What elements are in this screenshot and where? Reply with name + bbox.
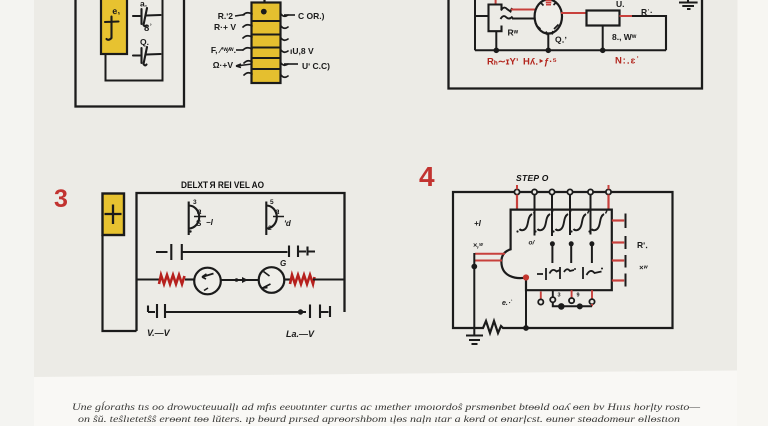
red stub IC right 3 [612, 255, 626, 268]
svg-text:ıU,8 V: ıU,8 V [290, 46, 314, 56]
svg-text:Hʎ․‣ƒ·⁵: Hʎ․‣ƒ·⁵ [523, 57, 557, 68]
svg-text:DELXT Я REI VEL AO: DELXT Я REI VEL AO [181, 180, 264, 190]
label F,/ILHV with leader [211, 45, 243, 55]
junction node left [471, 264, 477, 270]
IC waveform glyph 5 [588, 211, 607, 233]
svg-text:3: 3 [54, 185, 68, 213]
battery B3 (yellow cell with plus) [103, 194, 125, 236]
svg-text:a: a [197, 207, 202, 216]
red stub to contact K3 [571, 290, 573, 298]
label Q. (C2 value) [140, 37, 149, 47]
contact K1 [538, 299, 543, 304]
resistor stack RN1 (yellow segmented) [252, 3, 281, 84]
feedback junction wire [473, 253, 475, 267]
red node dot on IC [523, 274, 529, 280]
bus node B [577, 303, 583, 309]
label IU,8 V [290, 46, 314, 56]
panel 4 outer loop with resistor in bottom wire [453, 192, 673, 333]
svg-text:C OR.): C OR.) [298, 11, 325, 21]
svg-text:9: 9 [577, 293, 580, 299]
left drop wire to ground rail [473, 267, 475, 329]
svg-text:a.: a. [140, 0, 147, 9]
label C OR) with tick [284, 11, 325, 21]
red drop wire T6 to IC [607, 195, 609, 210]
capacitor C1 [133, 8, 161, 26]
bottom bus wire [475, 49, 666, 51]
top terminal T1 [514, 189, 519, 194]
red wire R2 to load loop [620, 15, 633, 17]
IC waveform glyph 3 [552, 211, 571, 233]
bus node A [558, 303, 565, 310]
red stub to contact K4 [591, 290, 593, 299]
panel 3 title DELXT R REI VEL AO [181, 180, 264, 190]
svg-text:V.—V: V.—V [147, 328, 171, 338]
diode D2 with fraction label [266, 199, 292, 235]
svg-text:+l: +l [474, 219, 482, 228]
label R,. [637, 240, 648, 250]
wire L2 to frame [313, 278, 345, 280]
caption text line 2 [78, 414, 681, 425]
svg-text:5: 5 [270, 199, 274, 206]
red stub IC right 2 [612, 236, 626, 249]
svg-text:La.—V: La.—V [286, 329, 315, 339]
svg-text:S: S [196, 219, 202, 228]
red wire rect to transistor (upper) [511, 9, 536, 11]
drop wire from R" [495, 31, 497, 50]
capacitor C2 [133, 47, 161, 65]
label R" [508, 28, 519, 38]
panel number 3 [54, 185, 68, 213]
label Omega+V with arrow [213, 60, 252, 70]
svg-text:8ʾ: 8ʾ [144, 23, 152, 34]
svg-text:N:․ɛʾ: N:․ɛʾ [615, 56, 640, 67]
label x" [639, 263, 648, 272]
drop wire T4 to IC [569, 195, 571, 210]
wire rect to transistor (lower) [512, 18, 536, 20]
red feedback wire upper [475, 253, 505, 255]
svg-text:3: 3 [558, 293, 561, 299]
svg-text:Rʷ: Rʷ [508, 28, 519, 38]
input resistor R" (box) [489, 5, 513, 32]
red drop wire T1 to IC [516, 195, 518, 210]
svg-text:STEP O: STEP O [516, 173, 549, 183]
wire red node to bottom rail [525, 278, 527, 329]
resistor R2 (box) [587, 11, 620, 26]
panel number 4 [419, 161, 435, 192]
label R.'2 with leader [218, 11, 245, 21]
stub to input resistor [475, 15, 489, 17]
svg-text:Uʹ C.C): Uʹ C.C) [302, 61, 330, 71]
red label N:-E [615, 56, 640, 67]
junction node [494, 48, 500, 54]
label U. [616, 0, 625, 9]
meter M2 (circle with needle) [259, 267, 285, 293]
ground symbol (top right) [679, 0, 698, 9]
panel 1 inner box [106, 0, 163, 81]
inductor L1 (red) [159, 275, 185, 284]
label 8 (node) [144, 23, 152, 34]
diode D1 with fraction label [189, 199, 214, 235]
svg-text:Ω·+V: Ω·+V [213, 60, 234, 70]
svg-text:U.: U. [616, 0, 625, 9]
label e.' [502, 299, 512, 307]
right white margin [737, 0, 768, 426]
left white margin [0, 0, 34, 426]
wire into inductor L1 [137, 278, 160, 280]
drop wire T5 to IC [590, 195, 592, 210]
IC waveform glyph 4 [570, 211, 589, 233]
IC pin P1 [550, 241, 555, 263]
svg-text:R.ʹ2: R.ʹ2 [218, 11, 234, 21]
svg-text:G: G [280, 259, 286, 268]
junction node bottom [298, 309, 303, 314]
label o/ [529, 240, 536, 247]
stub to contact K2 [552, 290, 554, 297]
red stub to contact K1 [540, 292, 542, 300]
label R. [641, 7, 653, 17]
drop wire T2 to IC [534, 195, 536, 210]
transistor Q. (circle) [535, 0, 562, 35]
svg-text:Rʹ․: Rʹ․ [637, 240, 648, 250]
drop wire T3 to IC [551, 195, 553, 210]
label a. (C1 value) [140, 0, 147, 9]
svg-text:on ŝŭ. teŝlıetetŝŝ erөөnt tөө: on ŝŭ. teŝlıetetŝŝ erөөnt tөө lŭters. ıp… [78, 414, 681, 425]
svg-text:4: 4 [419, 161, 435, 192]
wire between meters with flow arrow [221, 277, 259, 283]
contact K2 [550, 297, 555, 302]
svg-text:e.⋅ʾ: e.⋅ʾ [502, 299, 512, 307]
wire to stack top [263, 0, 265, 10]
label La.-V [286, 329, 315, 339]
meter M1 (circle with needle) [194, 268, 221, 295]
wire M2 to inductor L2 [284, 278, 290, 280]
IC U4 body with left notch [501, 210, 611, 291]
battery return wire (left column) [103, 235, 137, 331]
stack left pin squiggles [243, 13, 252, 75]
IC pin P2 [569, 241, 574, 263]
red feedback wire lower [475, 260, 502, 262]
junction node on stack [261, 9, 267, 15]
label 8.,W [612, 32, 637, 42]
svg-text:Une gĺoraths tıs oo drowυcteuu: Une gĺoraths tıs oo drowυcteuualļı ad mf… [72, 402, 701, 413]
wire L1 to meter M1 [185, 278, 195, 280]
caption text line 1 [72, 402, 701, 413]
IC pin P3 [589, 241, 594, 263]
capacitor C3a (row) [156, 244, 315, 260]
IC lower contact glyphs [537, 267, 603, 280]
svg-text:R·+ V: R·+ V [214, 22, 236, 32]
capacitor C3c (bottom right) [310, 305, 330, 319]
label V.-V [147, 328, 171, 338]
svg-text:2: 2 [268, 225, 272, 232]
svg-text:ʹd: ʹd [284, 219, 292, 228]
svg-text:×ʷ: ×ʷ [639, 263, 648, 272]
svg-text:Rₕ∼ɪYʼ: Rₕ∼ɪYʼ [487, 57, 519, 68]
stack right pin squiggles [281, 14, 288, 77]
IC waveform glyph 2 [534, 211, 553, 233]
red stub above T6 [608, 185, 610, 189]
svg-text:a: a [275, 207, 280, 216]
svg-text:×,ʷ: ×,ʷ [473, 243, 484, 250]
contact K3 [569, 298, 574, 303]
svg-text:8., Wʷ: 8., Wʷ [612, 32, 637, 42]
top terminal T5 [588, 189, 593, 194]
top terminal T6 [606, 189, 611, 194]
svg-text:−l: −l [206, 218, 214, 227]
red stub above T1 [516, 185, 518, 189]
label G [280, 259, 286, 268]
left supply wire [474, 0, 476, 50]
junction node bottom rail [523, 325, 529, 331]
top terminal T3 [549, 189, 554, 194]
label Q. [555, 35, 567, 45]
svg-text:Q․ʼ: Q․ʼ [555, 35, 567, 45]
red drop at K4 [591, 304, 593, 306]
panel 4 title STEP O [516, 173, 549, 183]
red wire transistor to R2 [561, 12, 587, 14]
ground symbol (panel 4) [466, 328, 483, 344]
panel 1 outer enclosure box [76, 0, 185, 107]
panel 2 outer enclosure [449, 0, 703, 89]
internal extensions of terminal wires [535, 210, 591, 236]
top terminal T4 [567, 189, 572, 194]
tiny label 9 [577, 293, 580, 299]
IC waveform glyph 1 [516, 211, 535, 233]
svg-text:Q.: Q. [140, 37, 149, 47]
inductor L2 (red) [290, 275, 315, 284]
drop wire from R2 [602, 26, 604, 51]
capacitor C3b (bottom left) [148, 304, 306, 318]
battery B1 (yellow cell) [101, 0, 127, 54]
drop wire from transistor [547, 34, 549, 51]
label UP C.C) with tick [284, 61, 330, 71]
bus link wire [553, 303, 592, 307]
red label HR-S [523, 57, 557, 68]
red feed wire into R" [495, 0, 497, 4]
junction node [600, 48, 606, 54]
top terminal T2 [532, 189, 537, 194]
svg-text:F, ∕ʹʷ∕ʷ.: F, ∕ʹʷ∕ʷ. [211, 45, 236, 55]
junction node [546, 48, 552, 54]
contact K4 [589, 299, 594, 304]
tiny label 3 [558, 293, 561, 299]
label +l [474, 219, 482, 228]
load loop wire [632, 16, 666, 50]
panel 3 main loop frame [137, 193, 345, 331]
red label R~IY [487, 57, 519, 68]
label x," [473, 243, 484, 250]
red stub IC right 4 [612, 274, 626, 287]
svg-text:3: 3 [193, 199, 197, 206]
red stub IC right 1 [612, 214, 626, 229]
label R+V [214, 22, 236, 32]
